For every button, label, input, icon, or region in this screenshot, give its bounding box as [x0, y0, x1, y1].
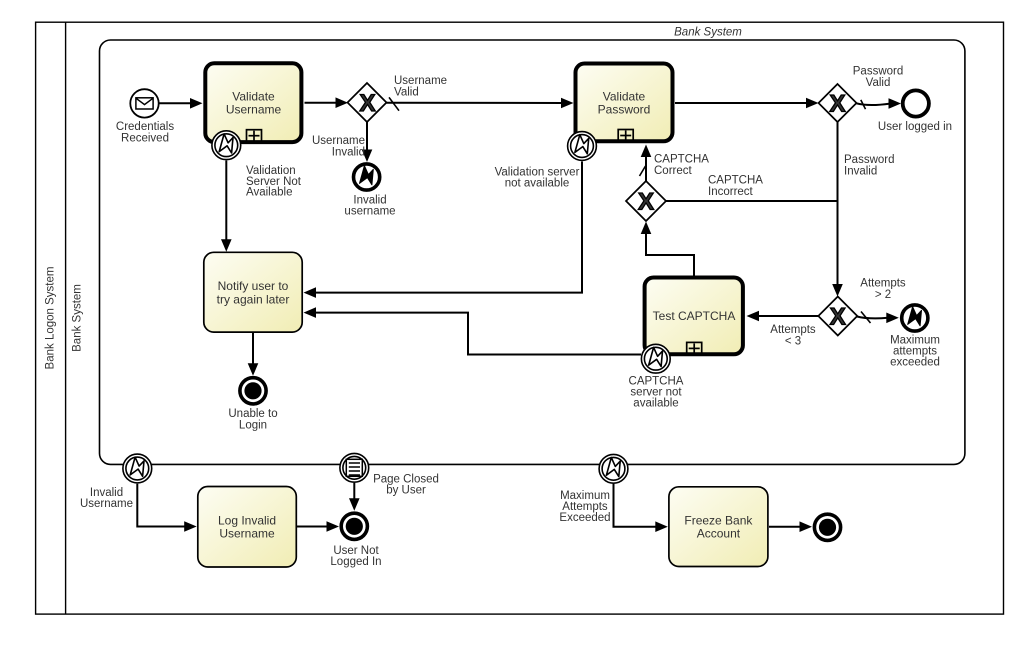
svg-text:Username: Username: [312, 135, 365, 147]
svg-text:Attempts: Attempts: [860, 278, 906, 290]
svg-text:Bank System: Bank System: [674, 27, 742, 39]
wire Page Closed event down to User Not Logged In end: [349, 483, 360, 511]
boundary event conditional Page Closed by User (on subprocess): [340, 453, 369, 482]
gateway G1 exclusive: [348, 83, 387, 122]
wire Invalid Username event to Log Invalid Username task: [137, 484, 196, 532]
svg-text:Valid: Valid: [394, 87, 419, 99]
end event User logged in: [903, 90, 929, 116]
wire G4 up to Validate Password (CAPTCHA Correct, default slash): [640, 145, 652, 182]
svg-text:by User: by User: [386, 485, 426, 497]
svg-text:try again later: try again later: [217, 292, 290, 306]
svg-text:Bank Logon System: Bank Logon System: [45, 267, 57, 370]
gateway G3 exclusive (attempts): [818, 297, 857, 336]
svg-text:Test CAPTCHA: Test CAPTCHA: [653, 309, 736, 323]
wire VP boundary event to Notify task: [304, 162, 583, 298]
boundary event error on Validate Password: [568, 132, 597, 161]
wire Notify task down to Unable to Login end: [248, 333, 259, 376]
wire Maximum Attempts event to Freeze Bank Account task: [614, 484, 668, 532]
end event terminate (after Freeze Bank Account): [814, 514, 840, 540]
wire start to Validate Username: [160, 98, 203, 109]
boundary event error Invalid Username (on subprocess): [123, 454, 152, 483]
svg-text:User logged in: User logged in: [878, 121, 952, 133]
svg-text:Valid: Valid: [866, 77, 891, 89]
task Validate Password (subprocess, thick border): [576, 64, 673, 142]
svg-text:Login: Login: [239, 420, 267, 432]
svg-text:Username: Username: [80, 498, 133, 510]
subprocess frame Bank System: [100, 40, 965, 464]
svg-text:Incorrect: Incorrect: [708, 186, 754, 198]
svg-text:Username: Username: [219, 527, 275, 541]
svg-text:Exceeded: Exceeded: [559, 512, 610, 524]
svg-text:username: username: [344, 206, 395, 218]
wire G3 to Maximum attempts exceeded end (default slash): [857, 312, 899, 324]
boundary event error on Test CAPTCHA: [641, 344, 670, 373]
svg-text:Received: Received: [121, 133, 169, 145]
svg-text:Attempts: Attempts: [770, 324, 816, 336]
wire G1 down to Invalid username end: [362, 122, 373, 162]
svg-text:X: X: [830, 304, 846, 331]
wire G2 down to G3 (Password Invalid): [832, 122, 843, 297]
svg-text:Account: Account: [697, 527, 741, 541]
svg-text:Logged In: Logged In: [330, 556, 381, 568]
wire G4 right to vertical x=837 (CAPTCHA Incorrect): [666, 200, 838, 202]
wire Test CAPTCHA up to G4: [641, 222, 694, 276]
svg-text:Credentials: Credentials: [116, 121, 174, 133]
wire Freeze Bank Account to terminate end: [769, 521, 812, 532]
svg-text:< 3: < 3: [785, 336, 801, 348]
task Validate Username (subprocess, thick border): [205, 63, 301, 142]
svg-text:Username: Username: [394, 75, 447, 87]
end event Unable to Login (terminate): [240, 378, 266, 404]
svg-text:Notify user to: Notify user to: [218, 279, 289, 293]
end event Invalid username (error): [354, 164, 380, 190]
svg-text:CAPTCHA: CAPTCHA: [654, 154, 709, 166]
svg-text:X: X: [829, 91, 845, 118]
wire Validate Username to gateway G1: [305, 97, 349, 108]
svg-text:Password: Password: [598, 103, 651, 117]
svg-text:Unable to: Unable to: [228, 408, 277, 420]
svg-text:available: available: [633, 398, 678, 410]
svg-text:Bank System: Bank System: [72, 284, 84, 352]
svg-text:Validate: Validate: [232, 90, 275, 104]
svg-text:Freeze Bank: Freeze Bank: [684, 514, 753, 528]
subprocess marker on Validate Username: [247, 130, 262, 142]
wire G1 to Validate Password (Username Valid, default slash): [387, 97, 574, 110]
svg-text:Password: Password: [853, 66, 904, 78]
wire Log Invalid Username to User Not Logged In end: [297, 521, 339, 532]
svg-text:Validate: Validate: [603, 90, 646, 104]
wire G3 left to Test CAPTCHA (Attempts < 3): [747, 311, 819, 322]
task Freeze Bank Account: [669, 487, 768, 567]
svg-text:Invalid: Invalid: [332, 147, 365, 159]
start event Credentials Received (message): [130, 89, 158, 117]
svg-text:Available: Available: [246, 187, 292, 199]
gateway G2 exclusive (password): [819, 84, 857, 122]
boundary event error on Validate Username: [212, 131, 241, 160]
wire VU boundary event down to Notify task: [221, 161, 232, 252]
task Log Invalid Username: [198, 487, 296, 568]
svg-text:Log Invalid: Log Invalid: [218, 514, 276, 528]
end event User Not Logged In (terminate): [341, 513, 367, 539]
task Notify user to try again later: [204, 252, 302, 332]
end event Maximum attempts exceeded (error): [902, 305, 928, 331]
subprocess marker on Validate Password: [618, 130, 633, 142]
svg-text:Username: Username: [226, 103, 282, 117]
task Test CAPTCHA (subprocess, thick border): [645, 278, 743, 355]
svg-text:not available: not available: [505, 177, 570, 189]
svg-text:> 2: > 2: [875, 289, 891, 301]
wire G2 to User logged in end (Password Valid, default slash): [856, 98, 901, 109]
wire Validate Password to gateway G2: [675, 98, 819, 109]
svg-text:Password: Password: [844, 154, 895, 166]
svg-text:Correct: Correct: [654, 165, 693, 177]
svg-text:exceeded: exceeded: [890, 357, 940, 369]
svg-text:X: X: [638, 189, 654, 216]
boundary event error Maximum Attempts (on subprocess): [599, 454, 628, 483]
subprocess marker on Test CAPTCHA: [687, 342, 702, 354]
svg-text:X: X: [359, 90, 375, 117]
svg-text:CAPTCHA: CAPTCHA: [708, 175, 763, 187]
gateway G4 exclusive (CAPTCHA): [626, 181, 666, 221]
svg-text:Invalid: Invalid: [844, 166, 877, 178]
wire Test CAPTCHA boundary event to Notify task: [304, 307, 642, 354]
